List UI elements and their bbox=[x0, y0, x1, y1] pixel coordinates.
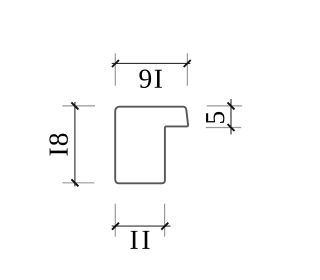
right dimension line bbox=[230, 99, 232, 134]
top dimension: extension line right bbox=[186, 53, 188, 85]
left dimension text 18 (rotated -90) bbox=[49, 134, 68, 156]
left dimension: extension line bottom bbox=[62, 182, 94, 184]
bottom dimension: extension line right bbox=[164, 204, 166, 237]
moulding profile outline bbox=[115, 107, 188, 184]
right dimension tick bottom bbox=[228, 124, 235, 131]
bottom dimension: extension line left bbox=[114, 204, 116, 237]
right dimension: extension line top bbox=[207, 105, 242, 107]
bottom dimension tick right bbox=[161, 223, 168, 230]
right dimension tick top bbox=[228, 102, 235, 109]
bottom dimension tick left bbox=[112, 223, 119, 230]
right dimension: extension line bottom bbox=[206, 127, 241, 129]
top dimension tick left bbox=[112, 60, 119, 67]
bottom dimension line bbox=[112, 225, 171, 227]
top dimension: extension line left bbox=[114, 53, 116, 85]
top dimension line bbox=[112, 62, 191, 64]
top dimension text 16 (rotated 180) bbox=[139, 70, 162, 88]
left dimension: extension line top bbox=[62, 105, 95, 107]
left dimension line bbox=[74, 102, 76, 186]
bottom dimension text 11 (rotated 180) bbox=[131, 231, 150, 249]
left dimension tick bottom bbox=[71, 179, 78, 186]
left dimension tick top bbox=[71, 102, 78, 109]
right dimension text 5 (rotated -90) bbox=[206, 112, 224, 123]
top dimension tick right bbox=[184, 60, 191, 67]
